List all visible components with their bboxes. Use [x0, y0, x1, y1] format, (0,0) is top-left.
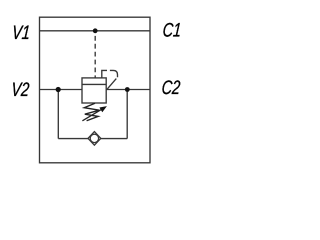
wire bypass left branch	[57, 90, 59, 139]
node bypass tap on V2 line	[56, 87, 61, 92]
check valve CV1 ball	[90, 134, 98, 142]
internal drain hook (curved part)	[110, 70, 118, 77]
spring adjustment arrow shaft	[82, 108, 103, 121]
wire V2-C2	[40, 89, 151, 91]
wire V1-C1	[40, 30, 151, 32]
relief valve spring	[84, 103, 99, 120]
internal drain hook (upper solid part)	[102, 70, 107, 78]
node bypass tap on C2 line	[125, 87, 130, 92]
node pilot tap on V1 line	[93, 28, 98, 33]
wire bypass bottom	[58, 138, 127, 140]
svg-text:C1: C1	[162, 19, 182, 41]
svg-text:V2: V2	[11, 79, 31, 101]
svg-text:C2: C2	[161, 77, 181, 99]
check valve CV1 poppet seat (diamond)	[88, 132, 101, 146]
relief valve RV1 body	[82, 78, 106, 103]
wire bypass right branch	[126, 90, 128, 139]
pilot line (dashed)	[94, 31, 96, 78]
svg-text:V1: V1	[11, 22, 31, 44]
internal drain hook (diagonal into C2 port)	[107, 79, 116, 90]
relief valve RV1 seat divider	[82, 83, 106, 85]
spring adjustment arrow head	[99, 106, 107, 112]
enclosure frame	[40, 17, 151, 163]
